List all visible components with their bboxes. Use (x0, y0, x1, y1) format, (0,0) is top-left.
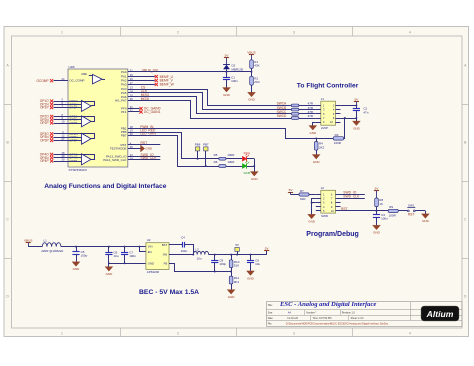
svg-text:RST: RST (408, 212, 414, 216)
svg-text:3: 3 (293, 332, 295, 336)
svg-text:MBR130: MBR130 (232, 67, 244, 71)
svg-text:PB7: PB7 (121, 133, 127, 137)
svg-text:47R: 47R (308, 114, 314, 118)
svg-text:TESTMODE: TESTMODE (110, 147, 127, 151)
svg-text:HG_PA7: HG_PA7 (115, 99, 127, 103)
svg-text:4: 4 (409, 31, 411, 35)
svg-text:PA0: PA0 (121, 70, 127, 74)
svg-text:VBUS: VBUS (247, 51, 255, 55)
svg-text:C4: C4 (181, 235, 185, 239)
svg-text:1: 1 (61, 31, 63, 35)
svg-text:10u: 10u (255, 262, 260, 266)
svg-text:GND: GND (248, 98, 256, 102)
svg-text:4: 4 (409, 332, 411, 336)
svg-text:OCOMP: OCOMP (37, 79, 49, 83)
svg-text:SWD_CLK: SWD_CLK (141, 156, 158, 160)
svg-text:Time: 9:07:54 PM: Time: 9:07:54 PM (313, 317, 332, 320)
svg-text:43K: 43K (254, 64, 259, 68)
svg-text:47n: 47n (363, 110, 368, 114)
svg-text:100p: 100p (81, 254, 88, 258)
svg-text:Program/Debug: Program/Debug (306, 231, 359, 238)
svg-text:OC_GAIN1: OC_GAIN1 (144, 110, 161, 114)
svg-text:GND: GND (223, 93, 231, 97)
svg-text:2K2: 2K2 (319, 145, 325, 149)
svg-text:100n: 100n (129, 254, 136, 258)
svg-text:10u: 10u (197, 257, 202, 261)
svg-text:R9: R9 (389, 205, 393, 209)
svg-text:J2: J2 (321, 186, 325, 190)
svg-text:Date:: Date: (268, 317, 274, 320)
svg-text:Sheet 1 of 2: Sheet 1 of 2 (351, 317, 365, 320)
svg-text:L1: L1 (44, 238, 48, 242)
svg-text:1K: 1K (379, 202, 383, 206)
svg-text:BEC - 5V Max 1.5A: BEC - 5V Max 1.5A (139, 289, 199, 296)
svg-text:100n: 100n (381, 217, 388, 221)
svg-text:OP3P: OP3P (40, 139, 49, 143)
svg-text:BST: BST (162, 243, 168, 247)
svg-text:GND: GND (251, 177, 259, 181)
svg-text:D:\Documents\HDD\PCB Documenta: D:\Documents\HDD\PCB Documentation\BLDC … (286, 322, 389, 325)
svg-text:ESC - Analog and Digital Inter: ESC - Analog and Digital Interface (279, 301, 376, 308)
svg-text:1: 1 (61, 332, 63, 336)
svg-text:SWCD: SWCD (277, 114, 287, 118)
svg-text:PB6: PB6 (195, 143, 201, 147)
svg-text:R7: R7 (300, 189, 304, 193)
svg-text:GND: GND (353, 126, 361, 130)
svg-text:100n: 100n (181, 249, 188, 253)
svg-text:J1: J1 (321, 97, 325, 101)
svg-text:100R: 100R (389, 213, 397, 217)
svg-text:SWD_CLK: SWD_CLK (343, 195, 360, 199)
svg-text:GND: GND (73, 267, 81, 271)
svg-text:R5: R5 (214, 153, 218, 157)
svg-text:R6: R6 (214, 160, 218, 164)
svg-text:GND: GND (247, 276, 255, 280)
svg-text:OP2P: OP2P (40, 121, 49, 125)
svg-text:PA14_SWD_CLK: PA14_SWD_CLK (103, 158, 126, 162)
svg-text:FB: FB (164, 261, 168, 265)
svg-text:OP4P: OP4P (40, 159, 49, 163)
svg-text:GND: GND (106, 272, 114, 276)
svg-text:Revision 1.0: Revision 1.0 (342, 312, 356, 315)
svg-text:PA3: PA3 (121, 82, 127, 86)
svg-text:3: 3 (293, 31, 295, 35)
svg-text:10u: 10u (114, 254, 119, 258)
svg-text:GND: GND (228, 295, 236, 299)
svg-text:R3: R3 (335, 133, 339, 137)
svg-text:Title:: Title: (268, 304, 273, 307)
svg-text:SW: SW (163, 253, 168, 257)
svg-text:EN: EN (148, 250, 152, 254)
svg-text:RST: RST (341, 207, 348, 211)
svg-text:U2: U2 (147, 238, 151, 242)
svg-text:GND: GND (422, 219, 430, 223)
svg-text:BEMF_W: BEMF_W (160, 83, 175, 87)
svg-text:Altium: Altium (426, 309, 454, 319)
svg-text:2K2: 2K2 (254, 80, 260, 84)
svg-text:220R @100MHz: 220R @100MHz (41, 249, 64, 253)
svg-text:GND: GND (373, 231, 381, 235)
svg-text:PF1: PF1 (121, 110, 127, 114)
svg-text:100p: 100p (219, 262, 226, 266)
svg-text:51K: 51K (234, 264, 239, 268)
svg-text:2: 2 (177, 332, 179, 336)
svg-text:9K1: 9K1 (234, 280, 240, 284)
svg-text:5V: 5V (235, 243, 239, 247)
svg-text:OC_COMP: OC_COMP (69, 79, 84, 83)
svg-text:PB7: PB7 (203, 143, 209, 147)
svg-text:14-Oct-20: 14-Oct-20 (287, 317, 298, 320)
svg-text:GND: GND (313, 160, 321, 164)
svg-text:DCB: DCB (244, 171, 250, 175)
svg-text:GND: GND (309, 131, 317, 135)
svg-text:SWD: SWD (321, 214, 329, 218)
svg-text:100R: 100R (334, 141, 342, 145)
svg-text:GND: GND (148, 261, 154, 265)
svg-text:62R: 62R (300, 197, 306, 201)
svg-text:To Flight Controller: To Flight Controller (297, 82, 359, 89)
svg-text:GND: GND (146, 147, 154, 151)
svg-text:L2: L2 (196, 247, 200, 251)
svg-text:AP63200: AP63200 (147, 270, 160, 274)
svg-text:REF: REF (82, 72, 88, 76)
svg-text:100R: 100R (227, 160, 235, 164)
svg-text:STSPIN32F0: STSPIN32F0 (69, 168, 88, 172)
svg-text:2: 2 (177, 31, 179, 35)
svg-text:Size:: Size: (268, 313, 273, 315)
svg-text:VIN: VIN (148, 245, 153, 249)
svg-text:RST: RST (141, 141, 148, 145)
svg-text:Analog Functions and Digital I: Analog Functions and Digital Interface (44, 183, 167, 190)
svg-text:VBUS: VBUS (24, 239, 32, 243)
svg-text:Number *: Number * (306, 312, 316, 315)
svg-text:OP1P: OP1P (40, 106, 49, 110)
svg-text:2x5P: 2x5P (321, 126, 328, 130)
svg-text:100n: 100n (231, 79, 238, 83)
svg-text:U1B: U1B (69, 65, 75, 69)
svg-text:GND: GND (308, 220, 316, 224)
svg-text:SW1: SW1 (408, 204, 415, 208)
svg-text:File:: File: (268, 323, 273, 325)
svg-text:DCA: DCA (244, 151, 250, 155)
svg-text:100R: 100R (227, 153, 235, 157)
